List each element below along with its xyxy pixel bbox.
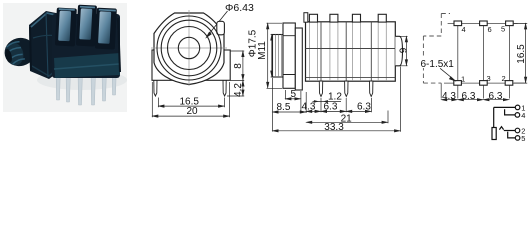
circle thread outer d17.5 (front view) [157, 16, 221, 80]
svg-text:4.3: 4.3 [442, 91, 456, 102]
svg-text:1.2: 1.2 [328, 91, 342, 102]
svg-text:9: 9 [399, 47, 410, 53]
svg-text:33.3: 33.3 [324, 122, 344, 133]
svg-text:6.3: 6.3 [324, 102, 338, 113]
circle M11 (front view) [168, 27, 211, 70]
main vertical wire [493, 107, 495, 127]
svg-text:4: 4 [521, 111, 525, 120]
circle hole d6.43 (front view) [178, 37, 199, 58]
lug 3 (side view) [352, 14, 360, 22]
center lines (front view) [151, 10, 227, 86]
mounting bracket (front view) [152, 50, 230, 80]
internal lines (side view body) [309, 22, 386, 81]
svg-text:6: 6 [488, 25, 492, 34]
svg-text:4.2: 4.2 [233, 83, 244, 97]
dim 6.3 (footprint bottom 1) [458, 99, 484, 101]
pin 2 (side view) [345, 81, 348, 97]
pins (photo) [56, 63, 117, 105]
bracket hidden outline (dashed) [423, 14, 450, 84]
svg-text:20: 20 [187, 106, 199, 117]
solder lug tab (side view leftmost) [304, 13, 308, 23]
svg-text:6.3: 6.3 [462, 91, 476, 102]
pad 6 [480, 21, 488, 26]
terminal circle 4 [515, 113, 520, 118]
svg-text:5: 5 [521, 134, 525, 143]
dim 21 (side view bottom) [306, 111, 388, 124]
terminal circle 5 [515, 136, 520, 141]
circle washer (front view) [161, 20, 217, 76]
contact towers (photo) [55, 4, 117, 50]
dim 6.3 second (side view bottom) [346, 98, 371, 112]
pin right (front view) [223, 80, 226, 96]
svg-text:8.5: 8.5 [277, 102, 291, 113]
dim 8 (front view height) [227, 51, 244, 96]
lug 2 (side view) [330, 14, 338, 22]
grid lines (footprint) [441, 23, 524, 98]
svg-text:4: 4 [462, 25, 466, 34]
svg-text:1: 1 [461, 75, 465, 84]
svg-text:16.5: 16.5 [516, 44, 527, 64]
svg-text:6.3: 6.3 [489, 91, 503, 102]
pin 3 (side view) [370, 81, 373, 97]
dim 8.5 (side view bottom) [273, 78, 307, 132]
svg-text:Φ6.43: Φ6.43 [225, 2, 254, 14]
svg-text:8: 8 [233, 63, 244, 69]
thread lines [276, 35, 282, 78]
svg-text:3: 3 [487, 74, 491, 83]
pad 4 [454, 21, 462, 26]
dim 6.3 (footprint bottom 2) [483, 99, 509, 101]
shadow under body (photo) [37, 70, 127, 90]
pad 2 [505, 81, 513, 86]
dim phi17.5 (between views) [267, 23, 283, 88]
contact line pin1 [494, 106, 516, 108]
end cap (side view right) [395, 36, 402, 66]
svg-text:5: 5 [291, 89, 297, 100]
lug 4 (side view) [378, 14, 386, 22]
pad 1 [454, 81, 462, 86]
contact branch pin4 [505, 109, 515, 115]
pin 1 (side view) [319, 81, 322, 97]
bushing (photo) [2, 35, 39, 70]
dim 6.3 first (side view bottom) [321, 98, 346, 112]
svg-text:4.3: 4.3 [302, 102, 316, 113]
pin left (front view) [154, 80, 157, 96]
dim 9 (side view right) [400, 36, 408, 66]
label 6-1.5x1 with leader [419, 57, 455, 68]
svg-text:M11: M11 [257, 41, 268, 60]
locating tab (front view) [217, 21, 225, 35]
dim 1.2 (pin width) [313, 100, 342, 102]
hex nut (side view) [283, 23, 295, 88]
leader line d6.43 [207, 11, 228, 37]
plug sleeve symbol [492, 128, 496, 140]
body (side view) [306, 22, 396, 81]
svg-text:6.3: 6.3 [357, 102, 371, 113]
main body (photo) [52, 14, 120, 78]
svg-text:6-1.5x1: 6-1.5x1 [421, 59, 455, 70]
dim 20 (front view) [152, 82, 229, 117]
contact line pin2 [504, 130, 515, 132]
terminal circle 1 [515, 105, 520, 110]
svg-text:2: 2 [502, 74, 506, 83]
dim 5 (side view bottom) [285, 90, 301, 113]
dim 4.3 (footprint bottom) [441, 99, 458, 101]
nut octagon (front view) [154, 13, 224, 85]
pad 5 [506, 21, 514, 26]
dim 16.5 (front view) [158, 98, 224, 108]
threaded bushing (side view) [273, 35, 284, 78]
washer (side view) [295, 28, 302, 90]
tip contact caret [499, 127, 503, 130]
svg-text:5: 5 [501, 25, 505, 34]
pad 3 [480, 81, 488, 86]
lug 1 (side view) [309, 14, 317, 22]
dim M11 (between views) [271, 35, 273, 78]
dim 16.5 (footprint right) [514, 23, 527, 83]
contact branch pin5 [508, 132, 516, 138]
photo of jack component (left) [2, 3, 127, 112]
terminal circle 2 [515, 128, 520, 133]
hex nut (photo) [29, 11, 64, 79]
dim 33.3 (side view bottom) [273, 67, 401, 132]
dim 4.3 (side view bottom) [306, 98, 321, 112]
